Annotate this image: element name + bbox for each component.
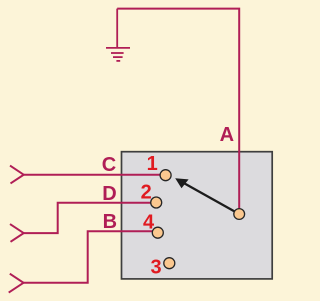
svg-text:C: C <box>102 154 116 176</box>
pin 3 contact <box>164 258 175 269</box>
wire: ground to node A (top horizontal and right vertical) <box>117 9 239 209</box>
svg-text:D: D <box>102 183 116 205</box>
ground <box>106 9 130 61</box>
svg-text:1: 1 <box>147 153 158 175</box>
svg-text:A: A <box>220 124 234 146</box>
wire C <box>24 174 161 176</box>
wire B <box>24 231 153 282</box>
svg-text:3: 3 <box>150 257 161 279</box>
svg-text:2: 2 <box>141 181 152 203</box>
terminal arrow C (input chevron) <box>10 166 24 184</box>
wiper arm (switch arrow) <box>175 178 234 211</box>
common terminal (node A pole) <box>234 209 245 220</box>
wire D <box>24 203 151 233</box>
terminal arrow D (input chevron) <box>10 224 24 242</box>
switch body S1 <box>122 152 273 279</box>
pin 1 contact <box>160 170 171 181</box>
pin 2 contact <box>151 197 162 208</box>
pin 4 contact <box>152 227 163 238</box>
terminal arrow B (input chevron) <box>9 274 24 293</box>
svg-text:B: B <box>103 211 117 233</box>
svg-text:4: 4 <box>143 211 155 233</box>
